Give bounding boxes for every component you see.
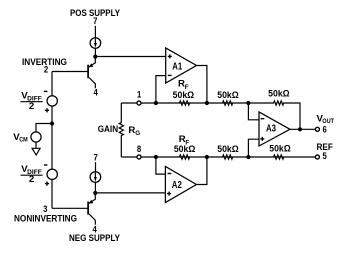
- label 50k (top row 2): [217, 90, 239, 100]
- wire pin7 to current source I1: [94, 26, 96, 38]
- wire A3 - input: [248, 103, 259, 120]
- label 50k (bottom row 3): [269, 144, 291, 154]
- current source I1: [90, 38, 101, 49]
- junction (A3 + node): [246, 155, 250, 159]
- label 50k (bottom row 2): [217, 144, 239, 154]
- wire VCM branch: [36, 124, 52, 132]
- source VDIFF2: [47, 169, 57, 179]
- svg-text:7: 7: [93, 16, 97, 27]
- resistor RF (bottom): [179, 155, 189, 159]
- label A2: [172, 180, 182, 191]
- wire + resistor A3 feedback: [248, 101, 300, 129]
- label RF (top): [178, 78, 189, 91]
- svg-text:50kΩ: 50kΩ: [174, 144, 196, 154]
- label REF: [317, 142, 334, 153]
- svg-text:CM: CM: [19, 136, 28, 143]
- label POS SUPPLY: [70, 8, 120, 19]
- node 8 terminal: [137, 155, 141, 159]
- svg-text:50kΩ: 50kΩ: [217, 90, 239, 100]
- resistor 50k (top row 2): [223, 101, 233, 105]
- junction (Q1 emitter node): [93, 55, 97, 59]
- svg-text:50kΩ: 50kΩ: [269, 144, 291, 154]
- junction (VCM node): [50, 121, 54, 125]
- ground: [32, 148, 40, 155]
- current source I2: [90, 172, 101, 183]
- svg-text:A3: A3: [266, 123, 276, 134]
- svg-text:G: G: [135, 130, 140, 137]
- label 50k (A3 feedback): [268, 89, 290, 99]
- op-amp A2: [165, 167, 196, 203]
- wire VDIFF1 to VCM junction: [51, 106, 53, 123]
- svg-text:8: 8: [137, 144, 142, 155]
- junction (A1 fb / row): [154, 101, 158, 105]
- pin 8: [137, 144, 142, 155]
- pin 1: [137, 90, 142, 101]
- svg-text:NEG SUPPLY: NEG SUPPLY: [69, 233, 120, 244]
- transistor Q1: [88, 57, 95, 89]
- wire A1 output: [197, 66, 207, 104]
- svg-text:A1: A1: [172, 61, 182, 72]
- svg-text:50kΩ: 50kΩ: [268, 89, 290, 99]
- wire node to A1 + input: [95, 56, 165, 58]
- pin 7 (top): [93, 16, 97, 27]
- op-amp A3: [259, 112, 290, 146]
- label INVERTING: [22, 57, 67, 68]
- wire A3 + input: [248, 139, 259, 157]
- op-amp A1: [166, 48, 197, 83]
- svg-text:4: 4: [94, 87, 99, 98]
- label NONINVERTING: [14, 214, 77, 225]
- label NEG SUPPLY: [69, 233, 120, 244]
- wire VCM to ground: [35, 142, 37, 148]
- junction (A3 out / fb): [298, 127, 302, 131]
- fraction bar VDIFF/2 (top): [21, 101, 43, 103]
- svg-text:50kΩ: 50kΩ: [173, 90, 195, 100]
- svg-text:5: 5: [323, 151, 328, 162]
- node 8 row wire: [121, 156, 317, 158]
- label VCM: [13, 132, 28, 144]
- label A1: [172, 61, 182, 72]
- label A3: [266, 123, 276, 134]
- wire I2 to node: [94, 182, 96, 193]
- label VDIFF/2 (bottom): [21, 164, 42, 185]
- wire VDIFF2 to pin3 corner: [51, 180, 53, 209]
- label RG: [128, 125, 140, 137]
- resistor RF (top): [179, 101, 189, 105]
- label VOUT: [317, 113, 335, 124]
- wire pin2 down to VDIFF1: [51, 72, 53, 96]
- svg-text:1: 1: [137, 90, 142, 101]
- wire node to A2 + input: [95, 192, 165, 194]
- junction (Q2 emitter node): [93, 191, 97, 195]
- junction (A1 out / row): [205, 101, 209, 105]
- terminal REF: [315, 155, 319, 159]
- label 50k (top row 1): [173, 90, 195, 100]
- svg-text:50kΩ: 50kΩ: [217, 144, 239, 154]
- terminal VOUT: [315, 127, 319, 131]
- svg-text:NONINVERTING: NONINVERTING: [14, 214, 77, 225]
- wire I1 to node: [94, 48, 96, 56]
- node 1 terminal: [137, 101, 141, 105]
- svg-text:2: 2: [29, 101, 34, 112]
- junction (A2 fb / row): [154, 155, 158, 159]
- label VDIFF/2 (top): [21, 91, 42, 112]
- svg-text:A2: A2: [172, 180, 182, 191]
- resistor RG: [119, 103, 123, 157]
- pin 4 (top): [94, 87, 99, 98]
- label RF (bottom): [179, 134, 190, 146]
- wire pin2 to Q1 base: [52, 71, 88, 73]
- minus sign VDIFF1: [44, 90, 48, 92]
- resistor 50k (bottom row 2): [223, 155, 233, 159]
- svg-text:GAIN: GAIN: [98, 124, 118, 135]
- wire A1 - feedback: [156, 76, 166, 103]
- junction (A3 - node): [246, 101, 250, 105]
- wire pin7 to current source I2: [95, 162, 97, 171]
- plus sign VDIFF1: [45, 108, 49, 112]
- minus sign VDIFF2: [44, 164, 48, 166]
- node 1 row wire: [121, 102, 248, 104]
- svg-text:6: 6: [323, 124, 327, 135]
- label 50k (bottom row 1): [174, 144, 196, 154]
- plus sign VDIFF2: [45, 182, 49, 186]
- resistor 50k (bottom row 3): [274, 155, 284, 159]
- wire A2 - feedback: [156, 157, 166, 174]
- svg-text:2: 2: [29, 174, 34, 185]
- pin 7 (bottom): [93, 152, 97, 163]
- pin 4 (bottom): [92, 225, 97, 236]
- wire pin3 to Q2 base: [52, 207, 88, 209]
- wire A2 output: [196, 157, 207, 185]
- wire VCM junction to VDIFF2: [51, 124, 53, 170]
- svg-text:2: 2: [44, 65, 48, 76]
- label GAIN: [98, 124, 118, 135]
- pin 2: [44, 65, 48, 76]
- fraction bar VDIFF/2 (bottom): [21, 174, 43, 176]
- pin 6: [323, 124, 327, 135]
- svg-text:7: 7: [93, 152, 97, 163]
- source VCM: [31, 132, 41, 142]
- junction (A2 out / row): [205, 155, 209, 159]
- source VDIFF1: [47, 96, 57, 106]
- transistor Q2: [88, 193, 95, 225]
- pin 3: [43, 204, 47, 215]
- wire A3 output: [290, 128, 317, 130]
- pin 5: [323, 151, 328, 162]
